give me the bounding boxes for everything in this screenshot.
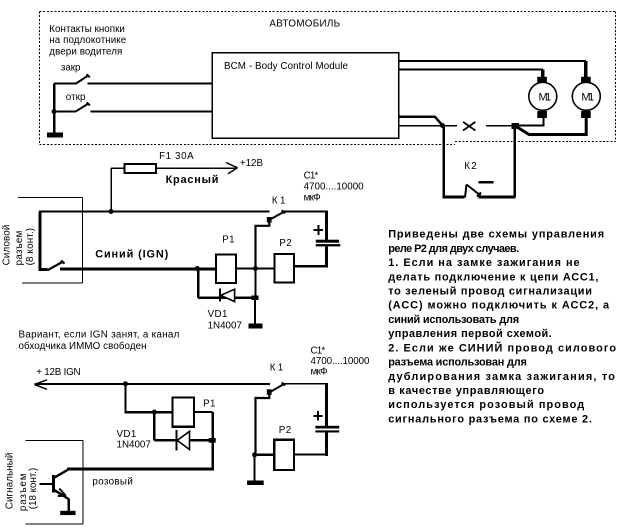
wire: K2 bottom right (479, 196, 516, 199)
wire: fuse left lead (111, 167, 125, 169)
svg-text:Сигнальный: Сигнальный (5, 453, 16, 510)
wire: right vertical down (211, 412, 213, 468)
wire: P1 right to vertical (194, 411, 213, 413)
capacitor C1 plates (316, 240, 339, 243)
wire: fuse to +12V arrow (156, 167, 236, 169)
contact: connector pin blade (48, 260, 65, 270)
svg-text:(АСС) можно подключить к АСС2,: (АСС) можно подключить к АСС2, а (388, 300, 610, 312)
main top wire (39, 211, 270, 213)
wire: VD1 branch left leg (197, 269, 200, 298)
svg-text:закр: закр (61, 63, 81, 74)
svg-text:делать подключение к цепи АСС1: делать подключение к цепи АСС1, (388, 271, 598, 283)
contact K1 pivot (bottom) (267, 389, 272, 395)
wire: VD1 horizontal (bottom) (154, 439, 212, 441)
svg-text:4700....10000: 4700....10000 (311, 356, 370, 367)
svg-text:используется розовый провод: используется розовый провод (388, 399, 584, 411)
svg-text:то зеленый провод сигнализации: то зеленый провод сигнализации (388, 286, 592, 298)
label C1 (bottom) (311, 346, 370, 378)
capacitor C1 plus (bottom) (313, 411, 322, 420)
svg-text:откр: откр (66, 92, 86, 103)
svg-text:М1: М1 (581, 91, 594, 103)
note: door button contacts caption (49, 24, 126, 58)
relay coil P2 (bottom) (274, 440, 294, 470)
svg-text:реле Р2 для двух случаев.: реле Р2 для двух случаев. (388, 243, 519, 255)
svg-text:синий использовать для: синий использовать для (388, 314, 519, 326)
svg-text:дублирования замка зажигания,: дублирования замка зажигания, то (388, 371, 615, 383)
relay coil P1 (top) (216, 255, 236, 284)
dashed enclosure АВТОМОБИЛЬ (40, 12, 617, 145)
diode VD1 (bottom) (177, 430, 190, 450)
wire: common down to ground (53, 83, 56, 133)
ground (transistor emitter) (60, 511, 75, 515)
svg-text:Приведены две схемы управления: Приведены две схемы управления (388, 229, 604, 241)
wire: down from junction to VD1 node (254, 269, 256, 298)
node: VD1 junction on vertical (209, 438, 216, 443)
relay coil P1 (bottom) (173, 397, 195, 426)
svg-text:VD1: VD1 (117, 429, 137, 440)
arrow +12В IGN (35, 380, 48, 390)
wire: K2 right leg (513, 126, 516, 197)
wire: VD1 left leg (bottom) (153, 412, 155, 440)
contact K1 pivot (267, 217, 272, 223)
svg-text:F1 30А: F1 30А (159, 151, 194, 162)
arrow +12V (226, 163, 238, 174)
svg-text:сигнального разъема по схеме 2: сигнального разъема по схеме 2. (388, 414, 592, 426)
wire: BCM to left motor top (399, 70, 543, 78)
transistor Q1 (39, 470, 68, 511)
svg-text:разъем: разъем (14, 230, 25, 265)
svg-text:мкФ: мкФ (304, 192, 321, 203)
node: junction between P1 and P2 (253, 266, 258, 271)
note: variant caption (19, 329, 180, 352)
svg-text:(18 конт.): (18 конт.) (28, 468, 39, 510)
node: junction left of P1 (195, 266, 200, 271)
wire: junction to P2 (bottom) (255, 454, 275, 456)
fuse F1 (125, 164, 157, 173)
svg-text:Р2: Р2 (279, 238, 291, 249)
svg-text:+12В: +12В (240, 158, 264, 169)
node: junction left of P2 (bottom) (252, 452, 257, 457)
wire: K1 to capacitor corner (bottom) (284, 383, 329, 385)
svg-text:разъема использован для: разъема использован для (388, 357, 527, 369)
diode VD1 (top) (220, 289, 235, 302)
svg-text:(8 конт.): (8 конт.) (25, 228, 36, 265)
wire: fuse drop to main wire (110, 168, 112, 212)
wire: C1 bottom lead (325, 246, 328, 267)
svg-text:Р1: Р1 (222, 235, 234, 246)
node: junction left of P1 (bottom) (152, 410, 157, 415)
wire: X to junction (486, 125, 513, 127)
svg-text:К2: К2 (464, 161, 477, 172)
svg-text:С1*: С1* (304, 170, 319, 181)
contact K1 blade (bottom) (271, 382, 286, 391)
capacitor C1 plates (bottom) (315, 426, 339, 429)
svg-text:Р1: Р1 (203, 399, 215, 410)
svg-text:АВТОМОБИЛЬ: АВТОМОБИЛЬ (269, 19, 340, 30)
power connector (8 pin) box (18, 198, 82, 284)
wire: junction down to ground (bottom) (254, 455, 256, 481)
ground (bottom K1 branch) (247, 481, 264, 486)
label Силовой разъем (8 конт.) (1, 225, 36, 266)
signal connector (18 pin) box (26, 440, 84, 524)
wire: K1 to capacitor corner (284, 211, 329, 213)
svg-text:М1: М1 (539, 91, 552, 103)
svg-text:Силовой: Силовой (1, 225, 12, 266)
svg-text:Вариант, если IGN занят, а кан: Вариант, если IGN занят, а канал (19, 329, 180, 340)
svg-text:на подлокотнике: на подлокотнике (49, 35, 126, 46)
svg-text:BCM - Body Control Module: BCM - Body Control Module (224, 61, 349, 72)
note: right explanation paragraph (388, 229, 616, 426)
wire: bottom main top wire (35, 383, 270, 385)
svg-text:управления первой схемой.: управления первой схемой. (388, 328, 552, 340)
svg-text:двери водителя: двери водителя (49, 46, 122, 57)
svg-text:обходчика ИММО свободен: обходчика ИММО свободен (19, 341, 147, 352)
capacitor C1 plus sign (313, 225, 323, 235)
wire: P1 to P2 (236, 268, 275, 270)
svg-text:VD1: VD1 (208, 309, 228, 320)
wire: corner down to C1 (325, 212, 328, 241)
wire: C1 to P2 (bottom) (294, 453, 328, 455)
X break mark (463, 122, 475, 131)
svg-text:Контакты кнопки: Контакты кнопки (49, 24, 125, 35)
svg-text:Красный: Красный (166, 174, 219, 186)
BCM module U1 box (212, 53, 399, 139)
node: junction right of X (512, 123, 520, 129)
contact K2 (465, 185, 481, 198)
wire: junction to left motor bottom (519, 118, 543, 126)
wire: C1 bottom lead (bottom) (325, 433, 328, 456)
wire: down to ground (254, 300, 256, 324)
node: VD1 right junction (252, 296, 259, 301)
wire: Синий (IGN) (60, 268, 216, 271)
motor M1 (left) (529, 77, 557, 118)
svg-text:2. Если же СИНИЙ провод силово: 2. Если же СИНИЙ провод силового (388, 341, 616, 354)
svg-text:Синий (IGN): Синий (IGN) (95, 249, 168, 261)
svg-text:С1*: С1* (311, 346, 326, 357)
ground (buttons) (47, 133, 63, 138)
node: junction of buttons common (52, 109, 57, 114)
contact K1 blade (270, 210, 285, 219)
node: junction left of X (440, 123, 445, 128)
switch закр (54, 74, 212, 83)
label Сигнальный разъем (18 конт.) (5, 453, 39, 512)
wire: corner down to C1 (bottom) (325, 384, 328, 426)
wire: junction down and right to P1 (126, 384, 173, 412)
svg-text:1. Если на замке зажигания не: 1. Если на замке зажигания не (388, 257, 579, 269)
contact K1 bracket (256, 222, 270, 269)
svg-text:мкФ: мкФ (311, 367, 328, 378)
relay coil P2 (top) (275, 254, 294, 282)
wire: C1 to P2 (294, 265, 328, 268)
contact K2 fixed bar (479, 181, 494, 184)
contact K1 bracket (bottom) (256, 394, 270, 455)
connector pin bracket (40, 212, 48, 270)
svg-text:1N4007: 1N4007 (117, 440, 151, 451)
svg-text:розовый: розовый (92, 476, 132, 487)
wire: junction to right motor bottom (thick bend) (517, 118, 586, 135)
wire: BCM to right motor top (399, 61, 586, 77)
wire: K2 left leg (442, 126, 445, 197)
svg-text:в качестве управляющего: в качестве управляющего (388, 385, 544, 397)
wire: BCM lower thin output (399, 125, 443, 127)
svg-text:Р2: Р2 (279, 425, 291, 436)
node: fuse junction (109, 209, 114, 214)
label C1 (top) (304, 170, 365, 203)
wire: K2 bottom left (443, 196, 465, 199)
svg-text:1N4007: 1N4007 (208, 320, 242, 331)
wire: VD1 branch horizontal (198, 297, 255, 300)
wire: to X break (443, 125, 457, 127)
svg-text:+ 12В IGN: + 12В IGN (36, 367, 80, 378)
wire: BCM lower thick output (399, 117, 443, 126)
node: junction on +12V IGN wire (123, 381, 128, 386)
wire: розовый thick wire (67, 468, 214, 471)
motor M1 (right) (572, 77, 600, 118)
ground (top schematic) (249, 324, 263, 329)
switch откр (54, 102, 212, 111)
svg-text:4700....10000: 4700....10000 (304, 181, 365, 192)
